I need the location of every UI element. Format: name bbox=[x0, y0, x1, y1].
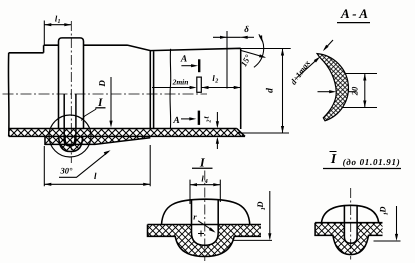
svg-text:20: 20 bbox=[350, 86, 360, 96]
svg-text:1: 1 bbox=[58, 19, 61, 25]
svg-text:A: A bbox=[180, 55, 187, 65]
svg-text:A - A: A - A bbox=[340, 6, 368, 21]
svg-text:1: 1 bbox=[261, 207, 267, 210]
svg-text:1: 1 bbox=[384, 212, 390, 215]
svg-text:d: d bbox=[266, 88, 276, 93]
svg-text:(до 01.01.91): (до 01.01.91) bbox=[343, 157, 401, 167]
svg-text:δ: δ bbox=[244, 24, 249, 34]
svg-text:2: 2 bbox=[206, 120, 212, 124]
svg-text:2min: 2min bbox=[172, 77, 189, 86]
svg-text:30°: 30° bbox=[60, 166, 74, 176]
svg-text:A: A bbox=[172, 116, 179, 126]
svg-text:I: I bbox=[330, 151, 337, 166]
svg-text:D: D bbox=[97, 80, 107, 88]
svg-text:2: 2 bbox=[214, 79, 218, 85]
svg-text:4: 4 bbox=[204, 179, 208, 185]
